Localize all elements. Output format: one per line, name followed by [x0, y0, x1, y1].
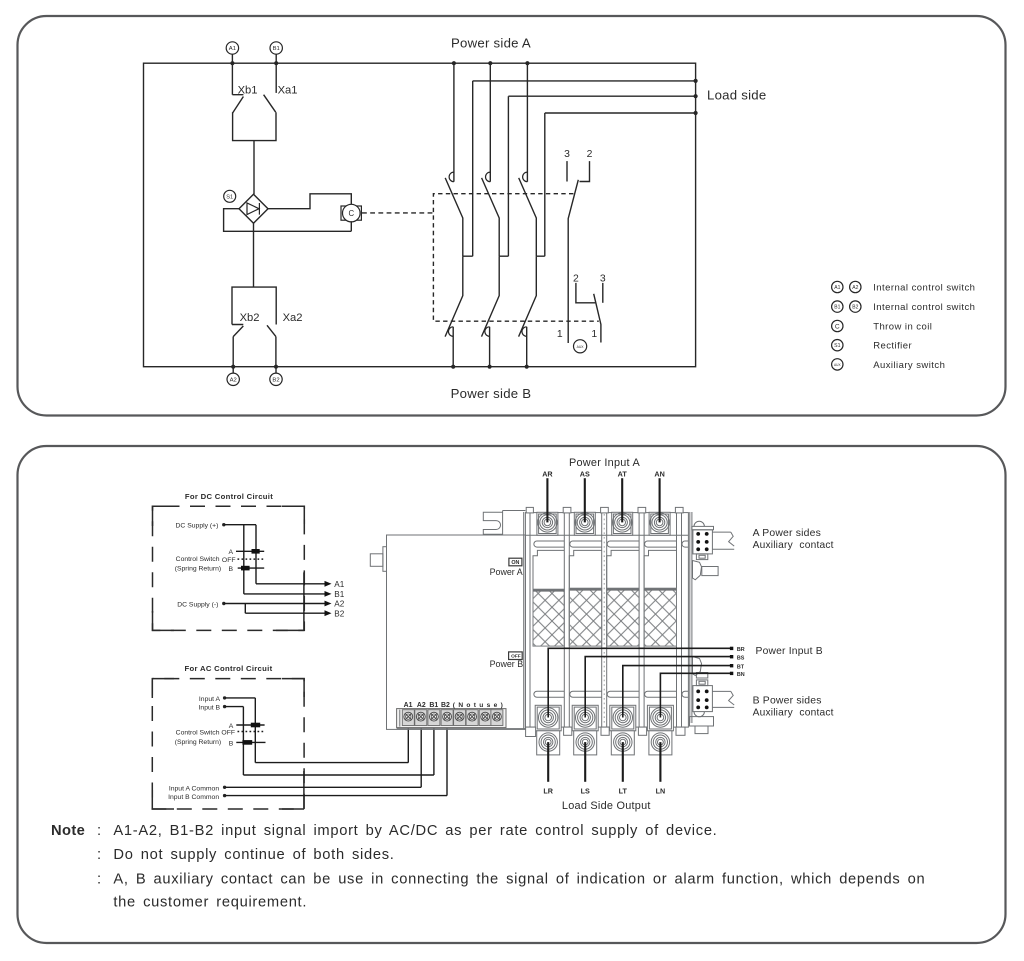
- device load terminals: [539, 733, 670, 751]
- wire load line 1: [473, 80, 696, 82]
- svg-text:A Power sides: A Power sides: [753, 528, 821, 539]
- wire main rectangle: [144, 63, 696, 367]
- terminal A2: [227, 367, 239, 386]
- svg-text:DC Supply (-): DC Supply (-): [177, 601, 218, 608]
- auxiliary switch AUX symbol: [574, 340, 587, 353]
- device arc chute crosshatch 4: [644, 588, 676, 646]
- svg-text:Power Input A: Power Input A: [569, 457, 641, 469]
- wire AT: [618, 469, 628, 522]
- wire LS: [581, 742, 590, 795]
- svg-text:B: B: [228, 566, 233, 573]
- switch Xb1: [233, 85, 258, 113]
- svg-text::: :: [97, 847, 101, 863]
- coil C: [341, 204, 361, 222]
- svg-text:AUX: AUX: [577, 345, 585, 349]
- AC control switch contact B: [229, 740, 266, 747]
- device input A terminals: [538, 513, 670, 532]
- svg-text:Power B: Power B: [490, 659, 524, 669]
- svg-text:A, B auxiliary contact can be: A, B auxiliary contact can be use in con…: [113, 872, 925, 888]
- svg-text:Do not supply continue of both: Do not supply continue of both sides.: [113, 847, 394, 863]
- device top-left mounting bracket: [483, 511, 525, 536]
- device hinge slots top row: [534, 541, 689, 547]
- svg-text:2: 2: [587, 149, 593, 160]
- label B power sides auxiliary contact: [753, 696, 834, 719]
- svg-text:Auxiliary contact: Auxiliary contact: [753, 708, 834, 719]
- device pole chambers: [533, 550, 677, 646]
- wire BT: [623, 664, 745, 718]
- switch Xa1: [264, 85, 298, 113]
- node top junction pole3: [525, 61, 529, 65]
- terminal B2: [270, 367, 282, 386]
- device input B terminals: [539, 708, 671, 727]
- wire LR: [543, 742, 553, 795]
- svg-text:LT: LT: [619, 786, 628, 795]
- device arc chute crosshatch 2: [569, 588, 601, 646]
- legend row 5 auxiliary switch: [832, 359, 946, 371]
- pole 2 switch: [482, 63, 509, 369]
- node DC plus: [222, 523, 225, 526]
- wire center drop to rectifier: [253, 141, 255, 195]
- svg-text:B1: B1: [429, 702, 438, 709]
- device ON indicator: [509, 558, 522, 566]
- auxiliary switch upper: [564, 149, 593, 343]
- node top junction pole2: [488, 61, 492, 65]
- node Input B: [223, 705, 226, 708]
- terminal strip: [397, 709, 526, 729]
- svg-text:Auxiliary contact: Auxiliary contact: [753, 540, 834, 551]
- svg-text:BT: BT: [737, 664, 745, 670]
- device left housing: [370, 512, 525, 729]
- auxiliary switch lower: [557, 274, 606, 343]
- wire DC out A1: [256, 580, 345, 589]
- svg-text:(Spring Return): (Spring Return): [175, 565, 221, 572]
- svg-text:C: C: [835, 323, 840, 330]
- device input B terminal pads: [535, 705, 673, 731]
- svg-text:Rectifier: Rectifier: [873, 341, 912, 352]
- device OFF indicator: [509, 652, 523, 660]
- wire A1 drop: [232, 63, 243, 94]
- svg-text:Control Switch: Control Switch: [176, 730, 220, 737]
- svg-text:Xb1: Xb1: [238, 85, 258, 97]
- node DC minus: [222, 602, 225, 605]
- svg-text:Auxiliary switch: Auxiliary switch: [873, 360, 945, 371]
- svg-text:Input A: Input A: [199, 696, 221, 703]
- wire Input B Common to B2 screw: [225, 717, 447, 795]
- svg-text:A1-A2, B1-B2 input signal impo: A1-A2, B1-B2 input signal import by AC/D…: [113, 823, 717, 839]
- svg-text:OFF: OFF: [222, 557, 236, 564]
- wire DC plus to switch: [224, 525, 256, 594]
- svg-text::: :: [97, 872, 101, 888]
- wire BS: [585, 655, 745, 718]
- wire B2 drop: [275, 337, 277, 367]
- wire Input A Common to A2 screw: [225, 717, 422, 787]
- DC control switch contact A: [228, 549, 264, 556]
- node A2 junction: [231, 365, 235, 369]
- AC control circuit box: [152, 664, 304, 809]
- device A side latch: [693, 561, 719, 580]
- svg-text:A1: A1: [834, 285, 840, 291]
- rectifier S1: [224, 190, 268, 223]
- legend row 3 throw in coil: [832, 320, 933, 332]
- svg-text:1: 1: [557, 329, 563, 340]
- device top tabs: [526, 507, 683, 513]
- svg-text:B: B: [229, 741, 234, 748]
- svg-text:( N o t u s e ): ( N o t u s e ): [453, 702, 504, 709]
- svg-text:B2: B2: [852, 305, 858, 311]
- svg-text:AS: AS: [580, 469, 590, 478]
- pole 1 switch: [445, 63, 473, 369]
- note text block: [51, 823, 925, 911]
- svg-text:Input B: Input B: [199, 705, 221, 712]
- svg-text:Internal control switch: Internal control switch: [873, 302, 975, 313]
- svg-text:A1: A1: [404, 702, 413, 709]
- device main body: [525, 513, 688, 728]
- svg-text:AN: AN: [654, 469, 664, 478]
- svg-text:Throw in coil: Throw in coil: [873, 321, 932, 332]
- svg-text:LS: LS: [581, 786, 590, 795]
- node Input B Common: [223, 794, 226, 797]
- svg-text:BN: BN: [737, 672, 745, 678]
- svg-text:A2: A2: [417, 702, 426, 709]
- legend row 1 internal control switch A: [832, 281, 976, 293]
- switch Xb2: [233, 312, 259, 337]
- wire Input A to A1 screw: [225, 698, 409, 763]
- terminal B1: [270, 42, 282, 63]
- node A1 junction: [230, 61, 234, 65]
- svg-text:A1: A1: [229, 46, 236, 52]
- svg-text:Xb2: Xb2: [240, 312, 260, 324]
- AC control switch OFF dotted: [221, 730, 264, 737]
- terminal A1: [226, 42, 238, 63]
- wire DC out B1: [244, 590, 345, 599]
- svg-text:For DC Control Circuit: For DC Control Circuit: [185, 492, 273, 501]
- pole 3 switch: [519, 63, 545, 369]
- svg-text:For AC Control Circuit: For AC Control Circuit: [185, 664, 273, 673]
- node B2 junction: [274, 365, 278, 369]
- wire load line 2: [508, 95, 695, 97]
- svg-text:1: 1: [591, 329, 597, 340]
- wire DC out B2: [245, 604, 344, 619]
- svg-text:A1: A1: [334, 580, 344, 589]
- svg-text:Power Input B: Power Input B: [756, 646, 823, 657]
- wire connector body upper: [233, 112, 276, 140]
- svg-text:DC Supply (+): DC Supply (+): [176, 522, 219, 529]
- svg-text:B2: B2: [441, 702, 450, 709]
- svg-text:A2: A2: [852, 285, 858, 291]
- svg-text:B1: B1: [273, 46, 280, 52]
- device right side rails: [690, 512, 692, 723]
- svg-text:(Spring Return): (Spring Return): [175, 739, 221, 746]
- DC control switch OFF dotted: [222, 557, 264, 564]
- device input A terminal pads: [537, 512, 670, 535]
- svg-text:LR: LR: [543, 786, 553, 795]
- wire load line 3: [545, 112, 696, 114]
- svg-text:Power side A: Power side A: [451, 36, 531, 51]
- svg-text:B Power sides: B Power sides: [753, 696, 822, 707]
- svg-text:3: 3: [564, 149, 570, 160]
- terminal strip labels: [404, 702, 504, 709]
- svg-text:A2: A2: [334, 600, 344, 609]
- device hinge slots bottom row: [534, 691, 689, 697]
- wire DC out A2: [224, 600, 345, 609]
- node top junction pole1: [452, 61, 456, 65]
- device arc chute crosshatch 3: [607, 588, 639, 646]
- svg-text:Power A: Power A: [490, 567, 523, 577]
- svg-text:Control Switch: Control Switch: [176, 556, 220, 563]
- svg-text:A2: A2: [230, 378, 237, 384]
- AC control switch contact A: [229, 723, 265, 730]
- svg-text:S1: S1: [834, 343, 840, 349]
- wire Input B to B1 screw: [225, 707, 434, 775]
- legend row 2 internal control switch B: [832, 301, 976, 313]
- wire coil bottom loop: [224, 209, 352, 232]
- device A aux connector block: [692, 521, 734, 559]
- label A power sides auxiliary contact: [753, 528, 834, 551]
- wire dashed coil to switch box: [362, 212, 433, 214]
- svg-text:B2: B2: [334, 609, 344, 618]
- svg-text:Note: Note: [51, 823, 85, 839]
- node B1 junction: [274, 61, 278, 65]
- device bottom right foot: [690, 717, 714, 734]
- wire main vertical to Xb2: [253, 223, 255, 287]
- device B side latch: [693, 657, 708, 679]
- svg-text:Load side: Load side: [707, 88, 766, 103]
- wire B1 drop: [275, 63, 277, 93]
- svg-text:BR: BR: [737, 647, 745, 653]
- wire A2 drop: [232, 337, 234, 367]
- node Input A: [223, 696, 226, 699]
- svg-text:S1: S1: [226, 194, 233, 200]
- panel 1 border: [18, 16, 1006, 416]
- svg-text:C: C: [348, 209, 354, 218]
- device load terminal pads: [537, 731, 672, 755]
- svg-text::: :: [97, 823, 101, 839]
- device bottom edge tabs: [526, 727, 685, 736]
- wire LN: [656, 742, 666, 795]
- svg-text:Xa2: Xa2: [283, 312, 303, 324]
- terminal strip screws: [402, 710, 503, 726]
- svg-text:B2: B2: [272, 378, 279, 384]
- svg-text:the customer requirement.: the customer requirement.: [113, 895, 307, 911]
- wire BN: [660, 672, 744, 718]
- svg-text:ON: ON: [511, 560, 519, 566]
- wire connector body lower: [232, 287, 276, 324]
- svg-text:B1: B1: [334, 590, 344, 599]
- node Input A Common: [223, 786, 226, 789]
- svg-text:AT: AT: [618, 469, 628, 478]
- svg-text:Load Side Output: Load Side Output: [562, 800, 651, 812]
- wire AR: [542, 469, 553, 522]
- svg-text:BS: BS: [737, 655, 745, 661]
- svg-text:Power side B: Power side B: [451, 386, 532, 401]
- svg-text:Input A Common: Input A Common: [169, 786, 219, 793]
- wire LT: [619, 742, 628, 795]
- svg-text:AR: AR: [542, 469, 553, 478]
- svg-text:AUX: AUX: [834, 363, 841, 367]
- DC control circuit box: [153, 492, 305, 631]
- svg-text:Internal control switch: Internal control switch: [873, 282, 975, 293]
- switch Xa2: [267, 312, 303, 337]
- svg-text:Input B Common: Input B Common: [168, 794, 219, 801]
- wire dashed mechanism box: [433, 194, 598, 322]
- svg-text:OFF: OFF: [221, 730, 235, 737]
- wire rectifier to coil top path: [268, 194, 351, 209]
- DC control switch contact B: [228, 566, 264, 573]
- svg-text:LN: LN: [656, 786, 666, 795]
- svg-text:Xa1: Xa1: [278, 85, 298, 97]
- legend row 4 rectifier: [832, 340, 913, 352]
- device B aux connector block: [693, 680, 734, 717]
- svg-text:B1: B1: [834, 305, 840, 311]
- wire AN: [654, 469, 664, 522]
- panel 2 border: [18, 446, 1006, 943]
- wire AS: [580, 469, 590, 522]
- wire BR: [548, 647, 745, 718]
- device arc chute crosshatch 1: [533, 589, 564, 646]
- svg-text:A: A: [228, 549, 233, 556]
